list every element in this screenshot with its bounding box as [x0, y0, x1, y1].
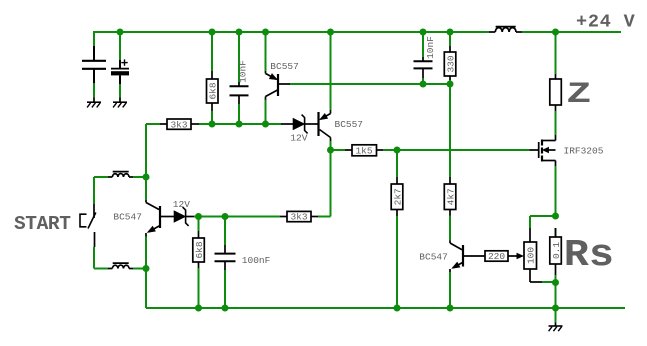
- svg-text:0.1: 0.1: [551, 242, 562, 259]
- svg-text:6k8: 6k8: [207, 82, 218, 99]
- svg-text:100nF: 100nF: [242, 255, 271, 266]
- svg-text:10nF: 10nF: [237, 60, 248, 83]
- svg-text:BC557: BC557: [270, 61, 299, 72]
- svg-text:BC547: BC547: [419, 252, 448, 263]
- svg-text:BC557: BC557: [335, 119, 364, 130]
- svg-text:3k3: 3k3: [290, 212, 307, 223]
- svg-text:3k3: 3k3: [170, 119, 187, 130]
- svg-text:4k7: 4k7: [445, 188, 456, 205]
- svg-text:BC547: BC547: [113, 212, 142, 223]
- svg-text:330: 330: [445, 55, 456, 72]
- svg-text:Rs: Rs: [564, 234, 614, 277]
- svg-text:12V: 12V: [290, 133, 307, 144]
- svg-text:12V: 12V: [173, 199, 190, 210]
- svg-text:+24 V: +24 V: [576, 12, 636, 33]
- svg-text:10nF: 10nF: [425, 36, 436, 59]
- svg-text:Z: Z: [567, 77, 592, 111]
- svg-text:100: 100: [525, 247, 536, 264]
- svg-text:2k7: 2k7: [392, 188, 403, 205]
- svg-text:1k5: 1k5: [355, 145, 372, 156]
- svg-text:START: START: [14, 213, 71, 235]
- svg-text:220: 220: [488, 251, 505, 262]
- svg-text:IRF3205: IRF3205: [564, 146, 604, 157]
- svg-text:6k8: 6k8: [194, 241, 205, 258]
